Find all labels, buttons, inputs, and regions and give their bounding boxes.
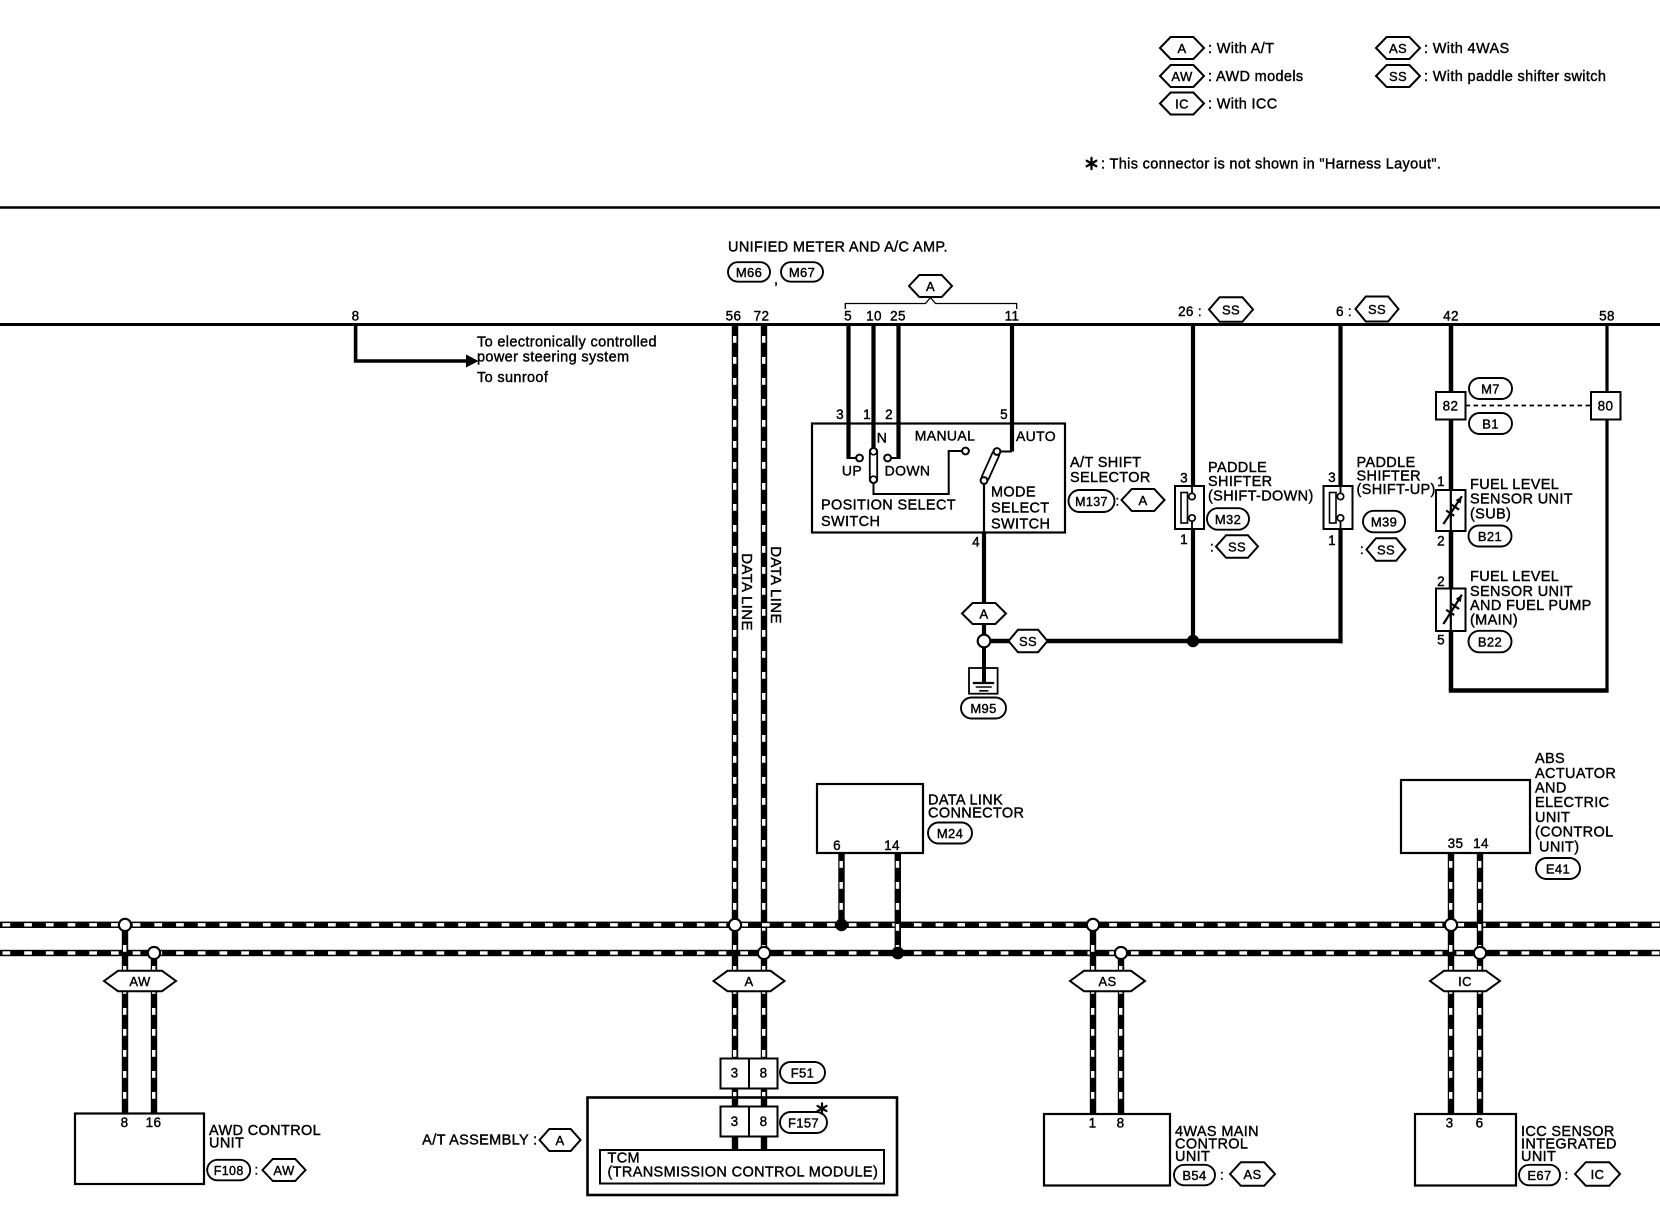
- connector B54: [1174, 1165, 1215, 1186]
- svg-text:DOWN: DOWN: [885, 462, 931, 478]
- svg-text:3: 3: [1446, 1116, 1454, 1131]
- svg-text:DATA LINE: DATA LINE: [767, 546, 784, 624]
- svg-text:UNIT: UNIT: [209, 1136, 244, 1152]
- svg-text:SELECTOR: SELECTOR: [1070, 470, 1151, 486]
- wire F51 to F157 left: [732, 1089, 738, 1107]
- svg-text:SWITCH: SWITCH: [821, 514, 880, 530]
- ABS drop wire 14: [1477, 853, 1483, 1114]
- connector B22: [1469, 631, 1512, 653]
- svg-text:AUTO: AUTO: [1016, 428, 1056, 444]
- svg-text:3: 3: [836, 407, 844, 422]
- svg-text:3: 3: [1328, 470, 1336, 485]
- connector M137: [1069, 490, 1115, 512]
- hexagon IC tap: [1430, 971, 1500, 991]
- 4WAS box: [1044, 1114, 1170, 1186]
- wire fuel bottom: [1449, 688, 1609, 693]
- connector M24: [928, 823, 972, 844]
- svg-text:SS: SS: [1228, 540, 1246, 555]
- hexagon AS tap: [1070, 971, 1145, 991]
- svg-text:ABS: ABS: [1535, 751, 1565, 767]
- inline connector 82: [1436, 392, 1466, 420]
- svg-text:8: 8: [760, 1114, 768, 1129]
- svg-text:UNIT): UNIT): [1539, 839, 1579, 855]
- svg-text:SENSOR UNIT: SENSOR UNIT: [1470, 492, 1573, 508]
- svg-text::: :: [1210, 540, 1214, 555]
- junction AWD upper: [119, 919, 131, 931]
- junction IC upper: [1445, 919, 1457, 931]
- svg-text:M7: M7: [1481, 382, 1500, 397]
- svg-text:A: A: [1138, 493, 1147, 508]
- svg-text:(SUB): (SUB): [1470, 506, 1511, 522]
- up contact: [856, 455, 863, 462]
- CAN bus lower: [0, 950, 1660, 956]
- wire hex to node: [982, 624, 986, 635]
- junction IC lower: [1474, 947, 1486, 959]
- svg-text:2: 2: [1437, 534, 1445, 549]
- svg-text:FUEL LEVEL: FUEL LEVEL: [1470, 477, 1559, 493]
- svg-text:,: ,: [774, 272, 778, 288]
- svg-text:ELECTRIC: ELECTRIC: [1535, 795, 1610, 811]
- A option AT: [540, 1129, 581, 1151]
- svg-text:11: 11: [1005, 309, 1020, 324]
- data line wire 72: [761, 326, 767, 1059]
- svg-text::: :: [254, 1163, 258, 1178]
- position select switch box: [812, 424, 1065, 533]
- svg-text:3: 3: [731, 1066, 739, 1081]
- A/T assembly box: [588, 1098, 898, 1196]
- dashed link 82-80: [1466, 405, 1592, 407]
- svg-text:8: 8: [352, 309, 360, 324]
- svg-text:F157: F157: [788, 1116, 819, 1131]
- svg-text:5: 5: [1437, 633, 1445, 648]
- connector F51 label: [780, 1062, 825, 1083]
- ground symbol: [969, 668, 998, 694]
- svg-text:6: 6: [1476, 1116, 1484, 1131]
- wire pin 4: [982, 533, 986, 605]
- svg-text:10: 10: [866, 309, 882, 324]
- svg-text:: AWD models: : AWD models: [1208, 69, 1304, 85]
- svg-text:SS: SS: [1368, 302, 1386, 317]
- ABS actuator box: [1401, 780, 1530, 853]
- svg-text:14: 14: [1473, 836, 1489, 851]
- connector B21: [1469, 526, 1512, 547]
- svg-text:58: 58: [1599, 309, 1615, 324]
- hexagon A above bracket: [909, 275, 952, 297]
- svg-text:1: 1: [863, 407, 871, 422]
- connector M39: [1363, 511, 1405, 533]
- svg-text:MANUAL: MANUAL: [915, 427, 975, 443]
- svg-text:14: 14: [884, 838, 900, 853]
- svg-text:3: 3: [731, 1114, 739, 1129]
- wire up contact: [849, 457, 857, 459]
- svg-text:DATA LINE: DATA LINE: [738, 553, 755, 631]
- wire lever to auto: [1000, 451, 1012, 453]
- svg-text:(CONTROL: (CONTROL: [1535, 825, 1614, 841]
- wire 26 to M32: [1191, 326, 1195, 486]
- svg-text:E67: E67: [1527, 1168, 1551, 1183]
- svg-text:6: 6: [833, 838, 841, 853]
- wire SS to M39 corner: [1046, 639, 1343, 644]
- connector M7: [1469, 378, 1512, 399]
- svg-text:POSITION SELECT: POSITION SELECT: [821, 498, 956, 514]
- svg-text:1: 1: [1328, 533, 1336, 548]
- connector M32: [1207, 508, 1249, 530]
- wire F157 to TCM right: [761, 1137, 767, 1151]
- svg-text:A/T SHIFT: A/T SHIFT: [1070, 455, 1141, 471]
- svg-text:AND: AND: [1535, 781, 1567, 797]
- svg-text:A: A: [979, 607, 988, 622]
- svg-text:M24: M24: [937, 826, 963, 841]
- svg-text:2: 2: [885, 407, 893, 422]
- AS drop wire 1: [1090, 925, 1096, 1114]
- AWD control unit box: [75, 1114, 204, 1185]
- svg-text:E41: E41: [1546, 862, 1570, 877]
- svg-text:8: 8: [760, 1066, 768, 1081]
- svg-text:4: 4: [972, 535, 980, 550]
- svg-text:16: 16: [146, 1115, 162, 1130]
- svg-text:M67: M67: [789, 265, 815, 280]
- connector M67: [781, 262, 823, 282]
- SS hexagon pin 6: [1356, 297, 1399, 322]
- data line wire 56: [732, 326, 738, 1059]
- junction data 72: [758, 947, 770, 959]
- svg-text:UNIT: UNIT: [1175, 1149, 1210, 1165]
- junction data 56: [729, 919, 741, 931]
- svg-text:FUEL LEVEL: FUEL LEVEL: [1470, 569, 1559, 585]
- svg-text:AS: AS: [1243, 1167, 1261, 1182]
- ICC box: [1415, 1114, 1516, 1186]
- svg-text:72: 72: [754, 309, 770, 324]
- svg-text:56: 56: [726, 309, 742, 324]
- svg-text:35: 35: [1448, 836, 1464, 851]
- svg-text:B54: B54: [1182, 1168, 1206, 1183]
- svg-text:F51: F51: [791, 1066, 814, 1081]
- svg-text:To sunroof: To sunroof: [477, 370, 549, 386]
- wire 42: [1449, 326, 1454, 691]
- svg-text:26 :: 26 :: [1178, 304, 1202, 319]
- connector B1: [1469, 413, 1512, 434]
- svg-text:M137: M137: [1075, 495, 1108, 509]
- wire F51 to F157 right: [761, 1089, 767, 1107]
- svg-text:: With ICC: : With ICC: [1208, 97, 1278, 113]
- svg-text:1: 1: [1089, 1116, 1097, 1131]
- legend connector option SS: [1376, 65, 1420, 87]
- wire 58: [1605, 326, 1608, 691]
- svg-text:F108: F108: [214, 1164, 244, 1178]
- TCM box: [600, 1150, 884, 1184]
- svg-text:B1: B1: [1482, 417, 1499, 432]
- wire pin 5: [846, 326, 850, 459]
- hexagon AW tap: [104, 971, 176, 991]
- paddle shifter M32 symbol: [1175, 486, 1204, 529]
- junction DLC 6: [835, 919, 848, 932]
- svg-text:AS: AS: [1389, 41, 1407, 56]
- SS hexagon on ground wire: [1009, 630, 1048, 652]
- n slider bar: [870, 448, 877, 483]
- connector F108: [207, 1160, 250, 1181]
- wire pin 25: [896, 326, 900, 459]
- svg-text:SS: SS: [1222, 303, 1240, 318]
- AWD drop wire 16: [151, 953, 157, 1114]
- AS drop wire 8: [1118, 953, 1124, 1114]
- svg-text:82: 82: [1443, 399, 1459, 414]
- SS hexagon pin 26: [1209, 297, 1253, 322]
- data line label 2: [767, 546, 784, 624]
- svg-text:M39: M39: [1371, 515, 1397, 530]
- svg-text:25: 25: [890, 309, 906, 324]
- legend connector option A: [1160, 37, 1204, 59]
- wire to power steering: [356, 326, 468, 361]
- svg-text:5: 5: [1000, 407, 1008, 422]
- svg-text::: :: [1115, 494, 1119, 509]
- svg-text:6 :: 6 :: [1336, 304, 1352, 319]
- svg-text:(MAIN): (MAIN): [1470, 612, 1518, 628]
- hexagon A tap: [714, 971, 785, 991]
- svg-text:3: 3: [1180, 471, 1188, 486]
- mode select lever: [981, 450, 1001, 482]
- svg-text:: With paddle shifter switch: : With paddle shifter switch: [1424, 69, 1606, 85]
- svg-text:M66: M66: [736, 265, 762, 280]
- svg-text:UNIT: UNIT: [1535, 810, 1570, 826]
- svg-text:AW: AW: [129, 974, 151, 989]
- svg-text:SS: SS: [1377, 543, 1395, 558]
- svg-text:8: 8: [121, 1115, 129, 1130]
- wire slider to manual: [874, 451, 963, 494]
- svg-text:A: A: [744, 974, 753, 989]
- ground node: [978, 635, 991, 648]
- svg-text:power steering system: power steering system: [477, 350, 629, 366]
- svg-text:AW: AW: [273, 1163, 295, 1178]
- svg-text:To electronically controlled: To electronically controlled: [477, 335, 657, 351]
- manual contact: [962, 448, 969, 455]
- svg-text::: :: [1360, 542, 1364, 557]
- wire node to SS hex: [990, 639, 1010, 644]
- main bus wire: [0, 323, 1660, 326]
- svg-text:IC: IC: [1458, 974, 1472, 989]
- inline connector 80: [1591, 392, 1621, 420]
- wire M39 down: [1338, 529, 1342, 643]
- svg-text:: With A/T: : With A/T: [1208, 41, 1274, 57]
- data line label 1: [738, 553, 755, 631]
- DLC drop wire 6: [838, 853, 844, 925]
- legend connector option IC: [1160, 93, 1204, 115]
- ABS drop wire 35: [1448, 853, 1454, 1114]
- svg-text:AS: AS: [1098, 974, 1116, 989]
- wire 6 to M39: [1338, 326, 1342, 486]
- data link connector box: [817, 784, 923, 853]
- hexagon A option: [962, 603, 1006, 624]
- separator line: [0, 206, 1660, 209]
- svg-text:AW: AW: [1171, 69, 1193, 84]
- svg-text:1: 1: [1180, 532, 1188, 547]
- wire F157 to TCM left: [732, 1137, 738, 1151]
- wire down contact: [891, 457, 899, 459]
- wire pin 10: [871, 326, 875, 449]
- junction dot M32: [1187, 635, 1199, 647]
- svg-text:A: A: [1177, 41, 1186, 56]
- legend connector option AS: [1376, 37, 1420, 59]
- wire lever bottom: [983, 484, 985, 533]
- fuel level sensor and pump main symbol: [1436, 589, 1466, 632]
- wire M32 down: [1191, 529, 1195, 641]
- connector M66: [728, 262, 770, 282]
- svg-text:(SHIFT-UP): (SHIFT-UP): [1357, 482, 1436, 498]
- DLC drop wire 14: [895, 853, 901, 953]
- svg-text:IC: IC: [1591, 1167, 1605, 1182]
- AWD drop wire 8: [122, 925, 128, 1114]
- svg-text::: :: [1564, 1168, 1568, 1183]
- connector E41: [1536, 858, 1580, 879]
- svg-text:A: A: [926, 279, 935, 294]
- svg-text:UNIFIED METER AND A/C AMP.: UNIFIED METER AND A/C AMP.: [728, 240, 948, 256]
- junction AWD lower: [148, 947, 160, 959]
- svg-text:42: 42: [1443, 309, 1459, 324]
- junction AS upper: [1087, 919, 1099, 931]
- svg-text:UP: UP: [842, 462, 862, 478]
- svg-text:5: 5: [844, 309, 852, 324]
- svg-text:A: A: [555, 1133, 564, 1148]
- svg-text:SS: SS: [1389, 69, 1407, 84]
- svg-text:CONNECTOR: CONNECTOR: [928, 806, 1024, 822]
- svg-text:: This connector is not shown: : This connector is not shown in "Harnes…: [1101, 157, 1441, 173]
- svg-text:N: N: [877, 429, 887, 445]
- down contact: [884, 455, 891, 462]
- svg-text:MODE: MODE: [991, 485, 1036, 501]
- svg-text:A/T ASSEMBLY :: A/T ASSEMBLY :: [422, 1133, 537, 1149]
- svg-text:SS: SS: [1019, 634, 1037, 649]
- svg-text:B22: B22: [1478, 635, 1502, 650]
- svg-text:IC: IC: [1175, 97, 1189, 112]
- svg-text:2: 2: [1437, 574, 1445, 589]
- wire node to ground: [982, 647, 986, 683]
- svg-text:: With 4WAS: : With 4WAS: [1424, 41, 1510, 57]
- wire pin 11: [1010, 326, 1014, 452]
- connector F157 label: [780, 1112, 827, 1133]
- svg-text:M95: M95: [970, 701, 996, 716]
- svg-text:SELECT: SELECT: [991, 501, 1050, 517]
- CAN bus upper: [0, 922, 1660, 928]
- junction DLC 14: [892, 947, 905, 960]
- svg-text:SWITCH: SWITCH: [991, 517, 1050, 533]
- connector E67: [1519, 1165, 1560, 1186]
- svg-text:80: 80: [1598, 399, 1614, 414]
- paddle shifter M39 symbol: [1324, 486, 1353, 529]
- svg-text:(SHIFT-DOWN): (SHIFT-DOWN): [1208, 489, 1314, 505]
- junction AS lower: [1115, 947, 1127, 959]
- svg-text:UNIT: UNIT: [1521, 1149, 1556, 1165]
- fuel level sensor unit sub symbol: [1436, 490, 1466, 531]
- connector M95: [961, 698, 1006, 719]
- svg-text:M32: M32: [1215, 512, 1241, 527]
- bracket: [845, 298, 1016, 310]
- note harness layout: [1087, 158, 1097, 169]
- connector F157: [721, 1107, 750, 1137]
- svg-text:ACTUATOR: ACTUATOR: [1535, 766, 1616, 782]
- svg-text::: :: [1220, 1168, 1224, 1183]
- svg-text:(TRANSMISSION CONTROL MODULE): (TRANSMISSION CONTROL MODULE): [608, 1164, 879, 1180]
- svg-text:8: 8: [1117, 1116, 1125, 1131]
- svg-text:1: 1: [1437, 474, 1445, 489]
- svg-text:B21: B21: [1478, 529, 1502, 544]
- legend connector option AW: [1160, 65, 1204, 87]
- connector F51: [721, 1059, 750, 1089]
